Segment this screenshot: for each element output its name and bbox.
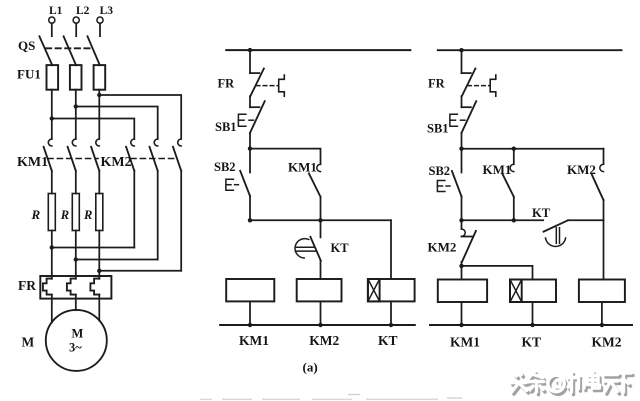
wire KM2 pole3 down [180,171,182,271]
wire KM2 coil to bottom rail [320,301,322,325]
wire bottom supply rail (circuit a) [220,324,415,326]
contactor aux contact KM2 (NC interlock, circuit b) [428,220,476,266]
wire to KM1 coil b [461,266,463,280]
node junction on top rail b [459,48,463,52]
node junction rail2 left [248,218,252,222]
svg-text:KM2: KM2 [101,155,132,170]
node L2 terminal [73,5,90,23]
node junction below R3 [97,269,101,273]
node junction below R1 [50,245,54,249]
coil KM1 (circuit b) [438,280,487,303]
wire KM1 coil to bottom rail [249,301,251,325]
resistor R phase3 [83,194,103,231]
contactor KM2 main contact pole2 [150,139,158,171]
wire rail2 (circuit a) [250,219,391,221]
wire L2 to QS [75,23,77,36]
node junction phase3 [97,93,101,97]
wire KM2 pole2 down [157,171,159,260]
wire phase2 fuse to KM1 contact [75,90,77,139]
wire bottom supply rail (circuit b) [430,324,632,326]
thermal contact FR (NC, circuit a) [218,69,285,97]
wire KT coil to bottom rail [390,301,392,325]
contactor aux contact KM2 (NO, circuit b right) [567,149,604,280]
wire L1 to QS [51,23,53,36]
svg-text:KT: KT [532,206,551,220]
coil KT time relay (circuit b) [510,280,556,303]
node branch junction b [459,147,463,151]
node junction below R2 [74,257,78,261]
svg-text:L3: L3 [100,5,114,17]
wire resistor1 bottom [51,231,53,279]
wire phase1 fuse to KM1 contact [51,90,53,139]
contactor aux contact KM1 (NO self-hold, circuit a) [288,160,321,221]
pushbutton SB2 (NO, circuit a) [214,149,250,196]
contactor KM2 main contact pole1 [126,139,134,171]
svg-text:KM1: KM1 [288,160,317,175]
svg-text:M: M [72,327,84,341]
contactor KM1 main contact pole1 [44,139,52,171]
svg-text:KM1: KM1 [239,333,269,348]
wire branch to KT coil b [462,266,533,280]
wire FR to SB1 [249,96,251,107]
wire L3 to QS [99,23,101,36]
svg-text:FR: FR [428,77,446,91]
pushbutton SB2 (NO, circuit b) [429,149,462,197]
wire branch to KM1 aux contact [250,149,321,165]
svg-text:SB1: SB1 [427,122,449,136]
watermark white layer [511,372,631,393]
node junction rail2 left b [459,218,463,222]
wire shunt phase3 [99,270,181,272]
node junction bottom rail KT [389,323,393,327]
pushbutton SB1 (NC, circuit b) [427,101,476,135]
disconnect switch QS [18,36,100,65]
svg-text:KT: KT [331,241,350,255]
wire FR to motor phase2 [75,295,77,311]
svg-text:FR: FR [18,278,36,293]
svg-text:SB2: SB2 [214,160,236,174]
thermal relay FR heater box [18,276,111,299]
svg-text:KT: KT [378,333,398,348]
dashed linkage KM2 group [131,158,178,160]
resistor R phase1 [31,194,56,231]
wire KM1 pole1 to resistor R [51,171,53,194]
svg-text:KM1: KM1 [450,335,480,350]
contactor KM1 main contact pole2 [68,139,76,171]
node junction above KM1 aux b [512,147,516,151]
wire KM2 coil to bottom rail b [601,302,603,325]
svg-text:R: R [83,208,92,222]
contactor KM1 main contact pole3 [91,139,99,171]
svg-text:L1: L1 [49,5,63,17]
svg-text:KM1: KM1 [483,162,512,177]
wire shunt phase2 [76,259,158,261]
wire rail to FR contact [249,50,251,73]
wire KM2 pole1 down [133,171,135,248]
wire KM1 pole3 to resistor R [98,171,100,194]
node junction rail2 KM1 b [512,218,516,222]
node junction bottom rail KM1 b [459,323,463,327]
wire top supply rail (circuit b) [438,49,622,51]
fuse FU1 (three fuses) [17,65,105,90]
wire SB2 to rail2 [249,196,251,220]
node junction on top rail [248,48,252,52]
node junction below KM2 NC [459,264,463,268]
svg-text:KM2: KM2 [428,240,457,255]
node junction bottom rail KM2 b [600,323,604,327]
contactor KM2 main contact pole3 [173,139,181,171]
svg-text:KT: KT [522,335,542,350]
wire FR to motor phase1 [51,295,53,323]
svg-text:(a): (a) [303,360,318,375]
node junction phase1 [50,116,54,120]
wire phase3 fuse to KM1 contact [98,90,100,139]
wire KT coil to bottom rail b [532,302,534,325]
coil KM2 (circuit b) [579,280,625,303]
wire top supply rail (circuit a) [226,49,410,51]
dashed linkage KM1 group [48,158,98,160]
motor M 3~ [22,310,107,371]
svg-text:KM2: KM2 [309,333,339,348]
svg-text:L2: L2 [76,5,90,17]
pushbutton SB1 (NC, circuit a) [215,101,265,134]
svg-text:3~: 3~ [69,341,82,355]
wire FR to motor phase3 [98,295,100,321]
node branch junction [248,146,252,150]
watermark shadow layer [513,374,633,395]
wire rail to FR contact b [461,50,463,73]
wire phase1 branch to KM2 [52,119,135,140]
coil KM2 (circuit a) [297,279,342,301]
wire phase2 branch to KM2 [76,107,158,140]
svg-text:R: R [31,207,41,222]
svg-text:M: M [22,335,35,350]
node L1 terminal [49,5,63,23]
node L3 terminal [97,5,113,23]
wire rail2 to KT coil [390,220,392,279]
wire KM1 coil to bottom rail b [461,302,463,325]
svg-text:SB1: SB1 [215,120,237,134]
wire shunt phase1 [52,247,135,249]
svg-text:KM2: KM2 [592,335,622,350]
faint cropped caption remnants [200,395,462,400]
svg-text:FU1: FU1 [17,67,41,82]
wire KM1 pole2 to resistor R [75,171,77,194]
wire branch rail to KM2 aux [462,148,604,150]
thermal contact FR (NC, circuit b) [428,69,496,97]
wire KT contact to KM2 coil [320,261,322,279]
wire SB1 to branch node [249,133,251,149]
wire phase3 branch to KM2 [99,95,181,139]
svg-text:KM1: KM1 [17,155,48,170]
node junction rail2 mid [318,218,322,222]
wire rail2 to KT contact [320,220,322,237]
wire rail2 (circuit b) [462,219,544,221]
time relay contact KT (NO delayed close, circuit a) [295,237,349,261]
node junction phase2 [74,104,78,108]
wire resistor2 bottom [75,231,77,279]
svg-text:FR: FR [218,77,236,91]
node junction bottom rail KM1 [248,323,252,327]
resistor R phase2 [60,194,80,231]
wire SB2 to rail2 b [461,196,463,220]
wire FR to SB1 b [461,96,463,107]
svg-text:R: R [60,208,69,222]
node junction bottom rail KT b [530,323,534,327]
wire SB1 to branch node b [461,133,463,149]
time relay contact KT (NO delayed close, horizontal, circuit b) [532,206,604,246]
contactor aux contact KM1 (NO self-hold, circuit b) [483,149,514,220]
coil KM1 (circuit a) [226,279,274,301]
wire resistor3 bottom [98,231,100,279]
coil KT time relay (circuit a) [368,279,415,301]
svg-text:SB2: SB2 [429,164,451,178]
node junction bottom rail KM2 [318,323,322,327]
svg-text:QS: QS [18,38,35,53]
